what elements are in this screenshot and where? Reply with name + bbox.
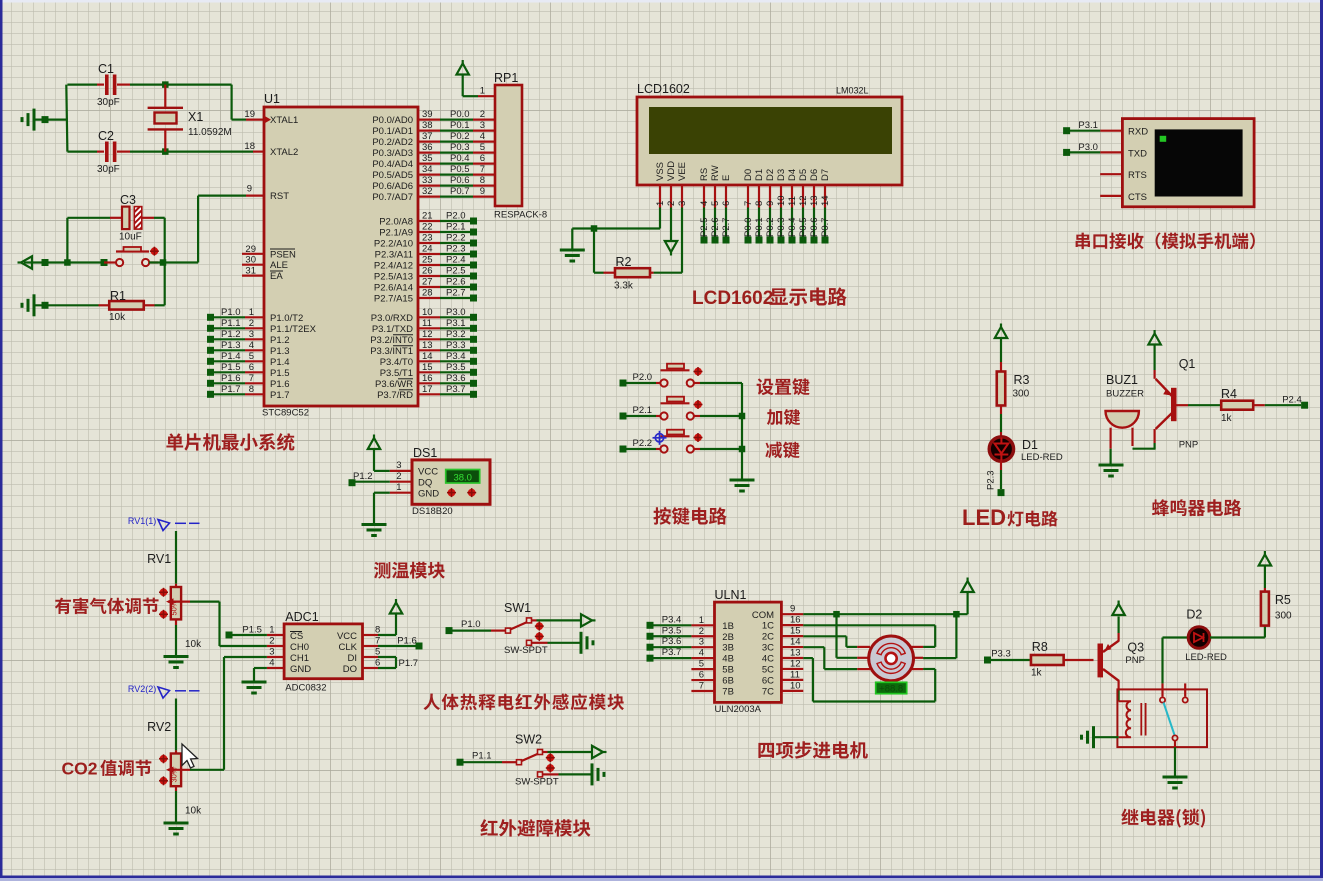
svg-text:22: 22 (422, 222, 433, 233)
svg-text:3: 3 (677, 201, 688, 206)
svg-text:P1.2: P1.2 (270, 335, 290, 346)
svg-text:CH0: CH0 (290, 642, 309, 653)
svg-text:XTAL1: XTAL1 (270, 115, 298, 126)
svg-text:39: 39 (422, 109, 433, 120)
svg-text:7: 7 (743, 201, 754, 206)
svg-text:P3.5: P3.5 (662, 625, 682, 636)
svg-text:RW: RW (710, 165, 721, 181)
svg-text:7B: 7B (722, 687, 734, 698)
svg-text:10k: 10k (185, 806, 202, 817)
svg-text:SW1: SW1 (504, 601, 531, 615)
svg-text:3: 3 (269, 647, 274, 658)
svg-text:3: 3 (249, 329, 254, 340)
svg-text:12: 12 (422, 329, 433, 340)
svg-text:28: 28 (422, 288, 433, 299)
svg-text:P0.6/AD6: P0.6/AD6 (372, 181, 413, 192)
svg-text:5: 5 (375, 647, 380, 658)
svg-text:11: 11 (422, 318, 432, 329)
svg-text:P2.6: P2.6 (446, 277, 466, 288)
svg-text:RESPACK-8: RESPACK-8 (494, 210, 547, 221)
svg-text:P3.5: P3.5 (446, 362, 466, 373)
svg-text:CTS: CTS (1128, 192, 1147, 203)
svg-text:P0.5: P0.5 (450, 164, 470, 175)
svg-text:2B: 2B (722, 632, 734, 643)
svg-text:37: 37 (422, 131, 433, 142)
svg-text:6B: 6B (722, 676, 734, 687)
svg-text:P3.3: P3.3 (446, 340, 466, 351)
svg-text:D1: D1 (754, 169, 765, 181)
svg-text:6C: 6C (762, 675, 774, 686)
svg-text:P0.2: P0.2 (450, 131, 470, 142)
svg-text:6: 6 (480, 153, 485, 164)
svg-text:P3.4: P3.4 (446, 351, 466, 362)
svg-text:1k: 1k (1031, 668, 1043, 679)
svg-text:6: 6 (249, 362, 254, 373)
svg-text:P1.2: P1.2 (353, 471, 373, 482)
svg-text:7: 7 (249, 373, 254, 384)
svg-text:2: 2 (699, 626, 704, 637)
svg-text:P2.0/A8: P2.0/A8 (379, 217, 413, 228)
svg-text:31: 31 (245, 266, 256, 277)
svg-text:RV2(2): RV2(2) (128, 684, 156, 694)
svg-text:R3: R3 (1014, 373, 1030, 387)
svg-text:300: 300 (1013, 389, 1030, 400)
svg-text:18: 18 (244, 141, 255, 152)
svg-text:300: 300 (1275, 611, 1292, 622)
svg-text:P0.7/AD7: P0.7/AD7 (372, 192, 413, 203)
svg-text:2: 2 (269, 636, 274, 647)
svg-text:P0.5/AD5: P0.5/AD5 (372, 170, 413, 181)
svg-text:P1.6: P1.6 (221, 373, 241, 384)
svg-text:P3.0: P3.0 (1078, 142, 1098, 153)
svg-text:CH1: CH1 (290, 653, 309, 664)
svg-text:P1.5: P1.5 (270, 368, 290, 379)
svg-text:9: 9 (790, 604, 795, 615)
svg-text:35: 35 (422, 153, 433, 164)
svg-text:D3: D3 (776, 169, 787, 181)
svg-text:P0.1: P0.1 (450, 120, 470, 131)
svg-text:RS: RS (699, 168, 710, 181)
svg-text:LED-RED: LED-RED (1021, 452, 1063, 463)
svg-text:2C: 2C (762, 632, 774, 643)
svg-text:RV1: RV1 (147, 552, 171, 566)
svg-text:14: 14 (820, 195, 831, 206)
svg-text:27: 27 (422, 277, 433, 288)
svg-text:3: 3 (480, 120, 485, 131)
svg-text:D6: D6 (809, 169, 820, 181)
svg-text:ALE: ALE (270, 260, 288, 271)
svg-text:P1.2: P1.2 (221, 329, 241, 340)
svg-text:P1.0/T2: P1.0/T2 (270, 313, 303, 324)
svg-text:P0.7: P0.7 (820, 217, 831, 237)
svg-text:P3.6: P3.6 (662, 636, 682, 647)
svg-text:P2.1: P2.1 (446, 222, 466, 233)
svg-text:1: 1 (249, 307, 254, 318)
svg-text:5: 5 (699, 659, 704, 670)
svg-text:P1.0: P1.0 (221, 307, 241, 318)
svg-text:12: 12 (798, 195, 809, 206)
svg-text:1: 1 (480, 86, 485, 97)
svg-text:4: 4 (480, 131, 485, 142)
svg-text:5C: 5C (762, 664, 774, 675)
svg-text:P0.4: P0.4 (787, 217, 798, 237)
svg-text:P0.7: P0.7 (450, 186, 470, 197)
svg-text:P1.4: P1.4 (270, 357, 290, 368)
svg-text:P1.1/T2EX: P1.1/T2EX (270, 324, 317, 335)
svg-text:P1.6: P1.6 (397, 635, 417, 646)
svg-text:P2.1/A9: P2.1/A9 (379, 228, 413, 239)
svg-text:E: E (721, 175, 732, 181)
svg-text:U1: U1 (264, 92, 280, 106)
svg-text:PSEN: PSEN (270, 249, 296, 260)
svg-text:14: 14 (422, 351, 433, 362)
svg-text:1: 1 (269, 625, 274, 636)
svg-text:5: 5 (710, 201, 721, 206)
svg-text:RST: RST (270, 191, 289, 202)
svg-text:4: 4 (249, 340, 254, 351)
svg-text:P0.2: P0.2 (765, 217, 776, 237)
svg-text:VDD: VDD (666, 161, 677, 181)
svg-text:5: 5 (480, 142, 485, 153)
svg-text:RV1(1): RV1(1) (128, 516, 156, 526)
svg-text:P0.1/AD1: P0.1/AD1 (372, 126, 413, 137)
svg-text:DS18B20: DS18B20 (412, 506, 453, 517)
svg-text:38.0: 38.0 (453, 473, 472, 484)
svg-text:13: 13 (422, 340, 433, 351)
svg-text:2: 2 (249, 318, 254, 329)
svg-text:7: 7 (699, 681, 704, 692)
svg-text:7C: 7C (762, 686, 774, 697)
svg-text:P0.4: P0.4 (450, 153, 470, 164)
svg-text:P1.7: P1.7 (221, 384, 241, 395)
svg-text:P3.7: P3.7 (662, 647, 682, 658)
svg-text:P3.0: P3.0 (446, 307, 466, 318)
svg-text:P3.5/T1: P3.5/T1 (380, 368, 413, 379)
svg-text:P3.3: P3.3 (991, 649, 1011, 660)
svg-text:24: 24 (422, 244, 433, 255)
svg-text:BUZZER: BUZZER (1106, 389, 1144, 400)
svg-text:P2.0: P2.0 (446, 211, 466, 222)
svg-text:SW-SPDT: SW-SPDT (515, 777, 559, 788)
svg-text:P3.2/INT0: P3.2/INT0 (370, 335, 413, 346)
svg-text:2: 2 (480, 109, 485, 120)
svg-text:RXD: RXD (1128, 127, 1148, 138)
svg-text:P1.5: P1.5 (221, 362, 241, 373)
svg-text:16: 16 (790, 615, 801, 626)
svg-text:DI: DI (348, 653, 358, 664)
svg-text:38: 38 (422, 120, 433, 131)
svg-text:9: 9 (247, 184, 252, 195)
svg-text:P2.4: P2.4 (446, 255, 466, 266)
svg-text:P0.5: P0.5 (798, 217, 809, 237)
svg-text:P1.6: P1.6 (270, 379, 290, 390)
svg-text:30pF: 30pF (97, 164, 120, 175)
svg-text:4C: 4C (762, 654, 774, 665)
svg-text:3: 3 (396, 460, 401, 471)
svg-text:6: 6 (375, 658, 380, 669)
svg-text:RTS: RTS (1128, 170, 1147, 181)
svg-text:CS: CS (290, 631, 303, 642)
svg-text:P0.2/AD2: P0.2/AD2 (372, 137, 413, 148)
svg-text:P3.6/WR: P3.6/WR (375, 379, 413, 390)
svg-text:CLK: CLK (339, 642, 358, 653)
svg-text:14: 14 (790, 637, 801, 648)
svg-text:DQ: DQ (418, 478, 432, 489)
svg-text:11: 11 (787, 196, 798, 206)
svg-text:10uF: 10uF (119, 232, 142, 243)
svg-text:C3: C3 (120, 193, 136, 207)
svg-text:XTAL2: XTAL2 (270, 147, 298, 158)
svg-text:TXD: TXD (1128, 148, 1147, 159)
svg-text:EA: EA (270, 271, 283, 282)
svg-text:19: 19 (244, 109, 255, 120)
svg-text:10k: 10k (185, 639, 202, 650)
svg-text:10: 10 (790, 680, 801, 691)
svg-text:P2.6: P2.6 (710, 217, 721, 237)
svg-text:36: 36 (422, 142, 433, 153)
svg-text:R4: R4 (1221, 387, 1237, 401)
svg-text:VCC: VCC (337, 631, 357, 642)
svg-text:P3.1/TXD: P3.1/TXD (372, 324, 413, 335)
svg-text:R5: R5 (1275, 593, 1291, 607)
svg-text:15: 15 (790, 626, 801, 637)
svg-text:D5: D5 (798, 169, 809, 181)
svg-text:4: 4 (699, 648, 704, 659)
svg-text:33: 33 (422, 175, 433, 186)
svg-text:P3.1: P3.1 (1078, 120, 1098, 131)
svg-text:LED-RED: LED-RED (1185, 652, 1227, 663)
svg-text:P0.3: P0.3 (450, 142, 470, 153)
svg-text:P0.0: P0.0 (743, 217, 754, 237)
svg-text:8: 8 (754, 201, 765, 206)
svg-text:P0.3: P0.3 (776, 217, 787, 237)
svg-text:11: 11 (790, 669, 800, 680)
svg-text:10: 10 (776, 195, 787, 206)
svg-text:1C: 1C (762, 621, 774, 632)
svg-text:RP1: RP1 (494, 71, 518, 85)
svg-text:LCD1602: LCD1602 (637, 82, 690, 96)
svg-text:30: 30 (245, 255, 256, 266)
svg-text:P2.7: P2.7 (446, 288, 466, 299)
svg-text:5B: 5B (722, 665, 734, 676)
svg-text:34: 34 (422, 164, 433, 175)
svg-text:D1: D1 (1022, 438, 1038, 452)
svg-text:1: 1 (655, 201, 666, 206)
svg-text:P2.4/A12: P2.4/A12 (374, 261, 413, 272)
svg-text:D4: D4 (787, 169, 798, 181)
svg-text:P1.7: P1.7 (270, 390, 290, 401)
svg-text:3: 3 (699, 637, 704, 648)
svg-text:7: 7 (375, 636, 380, 647)
svg-text:P3.7/RD: P3.7/RD (377, 390, 413, 401)
svg-text:C2: C2 (98, 129, 114, 143)
svg-text:9: 9 (765, 201, 776, 206)
svg-text:P3.2: P3.2 (446, 329, 466, 340)
svg-text:P2.5: P2.5 (446, 266, 466, 277)
svg-text:D2: D2 (1186, 608, 1202, 622)
svg-text:P1.7: P1.7 (399, 658, 419, 669)
svg-text:P3.0/RXD: P3.0/RXD (371, 313, 413, 324)
svg-text:LCD1602: LCD1602 (692, 288, 773, 309)
svg-text:13: 13 (790, 648, 801, 659)
svg-text:3C: 3C (762, 643, 774, 654)
svg-text:P2.2: P2.2 (446, 233, 466, 244)
svg-text:P3.1: P3.1 (446, 318, 466, 329)
svg-text:25: 25 (422, 255, 433, 266)
svg-text:X1: X1 (188, 110, 203, 124)
svg-text:8: 8 (480, 175, 485, 186)
svg-text:P0.6: P0.6 (450, 175, 470, 186)
svg-text:6: 6 (699, 670, 704, 681)
svg-text:Q1: Q1 (1179, 357, 1196, 371)
svg-text:30pF: 30pF (97, 97, 120, 108)
svg-text:1: 1 (699, 615, 704, 626)
svg-text:15: 15 (422, 362, 433, 373)
svg-text:P2.3: P2.3 (986, 470, 997, 490)
svg-text:PNP: PNP (1179, 440, 1199, 451)
svg-text:P2.3: P2.3 (446, 244, 466, 255)
svg-text:16: 16 (422, 373, 433, 384)
svg-text:P3.6: P3.6 (446, 373, 466, 384)
svg-text:Q3: Q3 (1127, 641, 1144, 655)
svg-text:P0.3/AD3: P0.3/AD3 (372, 148, 413, 159)
svg-text:10: 10 (422, 307, 433, 318)
svg-text:17: 17 (422, 384, 433, 395)
svg-text:2: 2 (666, 201, 677, 206)
svg-text:1B: 1B (722, 621, 734, 632)
svg-text:P0.4/AD4: P0.4/AD4 (372, 159, 413, 170)
svg-text:P1.0: P1.0 (461, 619, 481, 630)
svg-text:P1.4: P1.4 (221, 351, 241, 362)
svg-text:P2.3/A11: P2.3/A11 (375, 250, 413, 261)
svg-text:21: 21 (422, 211, 433, 222)
svg-text:R2: R2 (616, 255, 632, 269)
svg-text:DO: DO (343, 664, 357, 675)
svg-text:LED: LED (962, 505, 1006, 530)
svg-text:P2.5: P2.5 (699, 217, 710, 237)
svg-text:7: 7 (480, 164, 485, 175)
svg-text:P1.1: P1.1 (472, 751, 492, 762)
svg-text:32: 32 (422, 186, 433, 197)
svg-text:P0.0/AD0: P0.0/AD0 (372, 115, 413, 126)
svg-text:P0.0: P0.0 (450, 109, 470, 120)
svg-text:P1.3: P1.3 (270, 346, 290, 357)
svg-text:P2.0: P2.0 (633, 372, 653, 383)
svg-text:ADC1: ADC1 (285, 610, 318, 624)
svg-text:23: 23 (422, 233, 433, 244)
svg-text:P1.3: P1.3 (221, 340, 241, 351)
svg-text:P2.2: P2.2 (633, 438, 653, 449)
svg-text:8: 8 (249, 384, 254, 395)
svg-text:P3.4/T0: P3.4/T0 (380, 357, 413, 368)
svg-text:VSS: VSS (655, 162, 666, 181)
svg-text:CO2: CO2 (62, 759, 98, 779)
svg-text:4: 4 (269, 658, 274, 669)
svg-text:P3.3/INT1: P3.3/INT1 (370, 346, 413, 357)
svg-text:2: 2 (396, 471, 401, 482)
svg-text:D0: D0 (743, 169, 754, 181)
svg-text:10k: 10k (109, 312, 126, 323)
svg-text:P3.4: P3.4 (662, 614, 682, 625)
svg-text:D2: D2 (765, 169, 776, 181)
svg-text:P2.1: P2.1 (633, 405, 653, 416)
svg-text:ULN1: ULN1 (715, 588, 747, 602)
svg-text:4: 4 (699, 201, 710, 206)
svg-text:GND: GND (290, 664, 311, 675)
svg-text:3B: 3B (722, 643, 734, 654)
svg-text:P0.6: P0.6 (809, 217, 820, 237)
svg-text:P2.6/A14: P2.6/A14 (374, 283, 413, 294)
svg-text:1: 1 (396, 482, 401, 493)
svg-text:3.3k: 3.3k (614, 281, 634, 292)
svg-text:R1: R1 (110, 289, 126, 303)
svg-text:P2.5/A13: P2.5/A13 (374, 272, 413, 283)
svg-text:P2.7: P2.7 (721, 217, 732, 237)
svg-text:PNP: PNP (1125, 655, 1145, 666)
svg-text:4B: 4B (722, 654, 734, 665)
svg-text:29: 29 (245, 244, 256, 255)
svg-text:P0.1: P0.1 (754, 217, 765, 237)
svg-text:P2.2/A10: P2.2/A10 (374, 239, 413, 250)
svg-text:9: 9 (480, 186, 485, 197)
svg-text:1k: 1k (1221, 413, 1233, 424)
svg-text:VCC: VCC (418, 467, 438, 478)
svg-text:STC89C52: STC89C52 (262, 408, 309, 419)
svg-text:D7: D7 (820, 169, 831, 181)
svg-text:P3.7: P3.7 (446, 384, 466, 395)
svg-text:P1.5: P1.5 (242, 625, 262, 636)
svg-text:SW-SPDT: SW-SPDT (504, 645, 548, 656)
svg-text:8: 8 (375, 625, 380, 636)
svg-text:LM032L: LM032L (836, 86, 869, 96)
svg-text:R8: R8 (1032, 640, 1048, 654)
svg-text:COM: COM (752, 610, 774, 621)
svg-text:P2.4: P2.4 (1282, 395, 1302, 406)
svg-text:BUZ1: BUZ1 (1106, 373, 1138, 387)
svg-text:SW2: SW2 (515, 733, 542, 747)
svg-text:VEE: VEE (677, 162, 688, 181)
svg-text:P2.7/A15: P2.7/A15 (374, 294, 413, 305)
svg-text:11.0592M: 11.0592M (188, 127, 232, 138)
svg-text:DS1: DS1 (413, 446, 437, 460)
svg-text:P1.1: P1.1 (221, 318, 241, 329)
svg-text:12: 12 (790, 658, 801, 669)
svg-text:6: 6 (721, 201, 732, 206)
svg-text:26: 26 (422, 266, 433, 277)
svg-text:ULN2003A: ULN2003A (715, 704, 762, 715)
svg-text:C1: C1 (98, 62, 114, 76)
svg-text:RV2: RV2 (147, 720, 171, 734)
svg-text:ADC0832: ADC0832 (285, 683, 326, 694)
svg-text:5: 5 (249, 351, 254, 362)
svg-text:+88.8: +88.8 (879, 684, 903, 695)
svg-text:13: 13 (809, 195, 820, 206)
svg-text:GND: GND (418, 489, 439, 500)
